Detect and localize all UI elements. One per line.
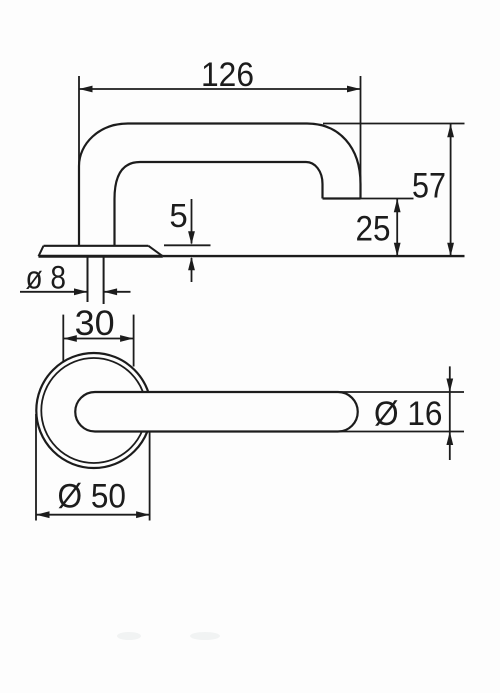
faint smudge left: [117, 632, 141, 640]
faint smudge right: [190, 632, 220, 640]
dimension 25 line: [394, 199, 401, 256]
svg-text:57: 57: [412, 167, 446, 206]
top edge extension line (for 57): [323, 123, 465, 125]
spindle line right: [103, 257, 105, 304]
svg-text:Ø 50: Ø 50: [58, 478, 127, 516]
rose outer circle (plan view): [36, 353, 151, 468]
rose inner circle (plan view): [41, 358, 146, 463]
rose plate (side view): [39, 246, 163, 256]
dimension 50 extension line right: [149, 433, 151, 521]
handle end bottom face: [323, 197, 361, 199]
dimension o8 line right: [104, 288, 131, 295]
dimension 16 extension line bottom: [338, 431, 464, 433]
dimension 5 extension line: [164, 244, 211, 246]
dimension 50 line: [36, 511, 150, 518]
lever bar (plan view): [75, 392, 358, 432]
plate bottom / baseline extension: [39, 255, 163, 258]
handle outer profile (side view): [79, 124, 361, 246]
handle inner profile (side view): [115, 162, 323, 246]
svg-text:126: 126: [201, 56, 254, 94]
dimension 30 line: [63, 335, 133, 342]
dimension 57 line: [447, 124, 454, 256]
dimension 126 extension line left: [78, 76, 80, 164]
dimension 16 extension line top: [338, 391, 464, 393]
svg-text:5: 5: [169, 197, 187, 234]
svg-text:ø 8: ø 8: [26, 260, 67, 296]
dimension 30 extension line right: [133, 315, 135, 367]
dimension 126 line: [79, 86, 361, 93]
dimension 5 lower arrow: [188, 257, 195, 282]
dimension 16 line: [446, 366, 453, 460]
svg-text:30: 30: [75, 304, 115, 343]
dimension 50 extension line left: [35, 414, 37, 521]
dimension 30 extension line left: [62, 315, 64, 362]
dimension 126 extension line right: [360, 76, 362, 192]
dimension o8 line left: [20, 288, 88, 295]
svg-text:25: 25: [356, 210, 391, 249]
dimension 5 upper line: [188, 199, 195, 245]
spindle line left: [87, 257, 89, 302]
bottom face extension line (for 25): [361, 198, 414, 200]
svg-text:Ø 16: Ø 16: [374, 395, 443, 433]
